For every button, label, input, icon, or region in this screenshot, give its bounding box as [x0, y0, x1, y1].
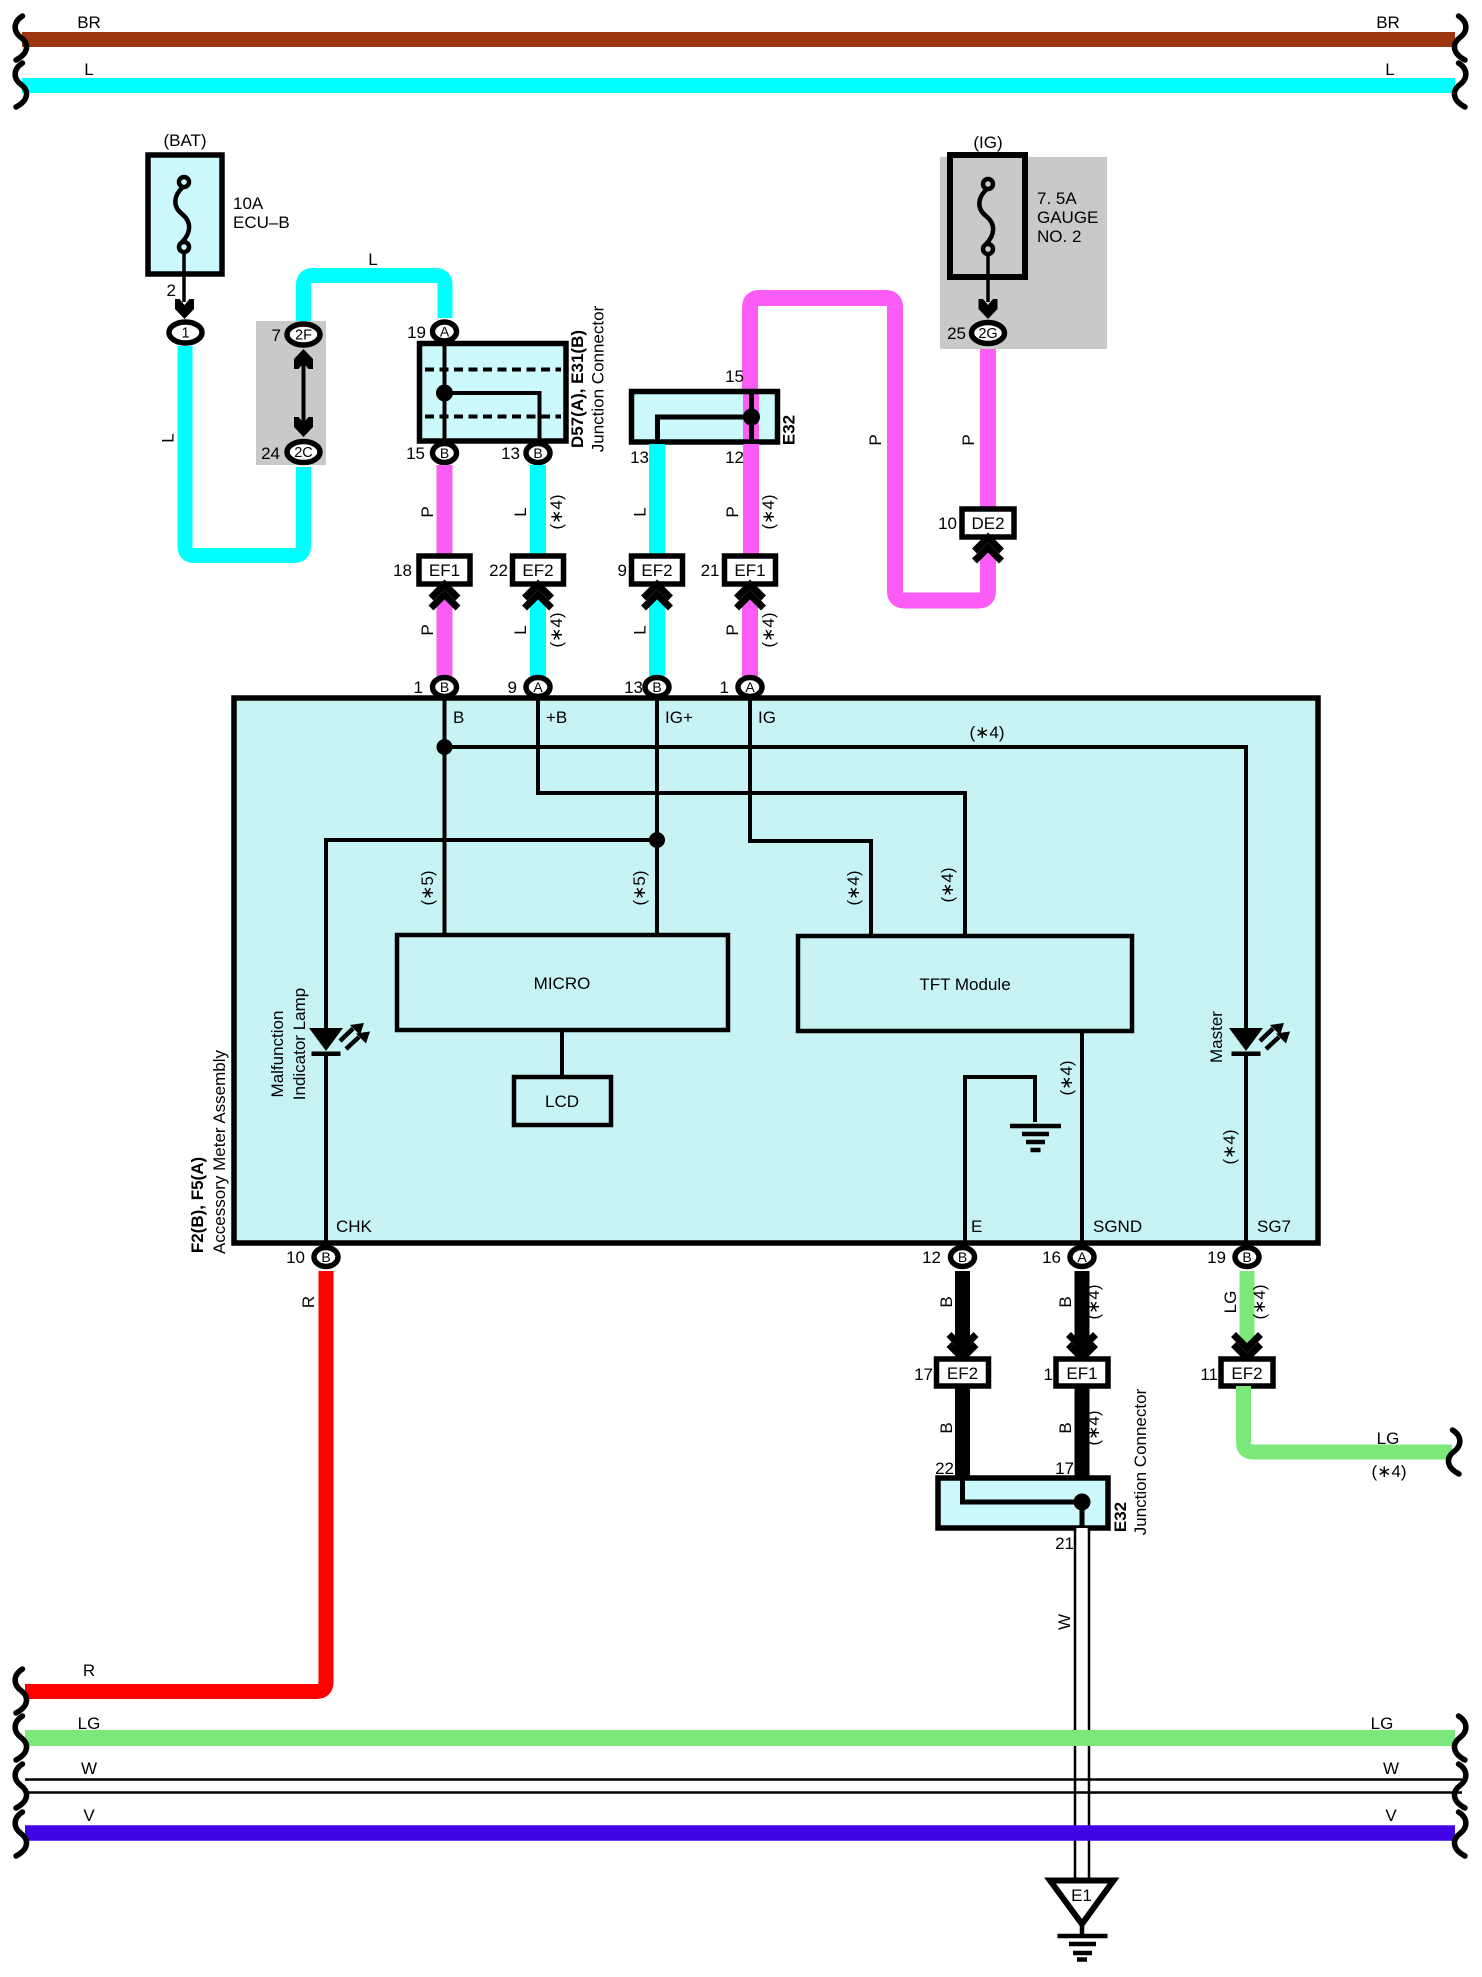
- svg-text:B: B: [453, 708, 464, 727]
- splice DE2 pin 10: [938, 509, 1014, 537]
- svg-text:(∗5): (∗5): [630, 870, 649, 905]
- svg-text:SGND: SGND: [1093, 1217, 1142, 1236]
- wire W from E32 pin 21 to ground E1 (white w/ black edges): [1055, 1528, 1088, 1878]
- svg-text:22: 22: [489, 561, 508, 580]
- svg-text:P: P: [866, 434, 885, 445]
- splice EF2 pin 22: [489, 556, 563, 584]
- wire LG(*4) from pin 19B to EF2 (green): [1221, 1271, 1269, 1355]
- terminal arrow into node 2G: [979, 299, 998, 319]
- wire L from E32 pin 13 to EF2 (cyan): [631, 444, 658, 556]
- meter pin 1 B: [414, 678, 457, 698]
- svg-text:(IG): (IG): [973, 133, 1002, 152]
- wire W vertical black edge lines: [1075, 1528, 1089, 1878]
- svg-text:12: 12: [922, 1248, 941, 1267]
- svg-text:B: B: [533, 445, 542, 461]
- continuation squiggle V left: [15, 1812, 26, 1856]
- Malfunction Indicator Lamp LED: [309, 1023, 370, 1056]
- meter pin 1 A (IG): [720, 678, 762, 698]
- internal wire from pin B to MICRO: [418, 700, 445, 935]
- svg-text:2F: 2F: [295, 328, 312, 344]
- svg-text:Accessory Meter Assembly: Accessory Meter Assembly: [210, 1049, 229, 1254]
- svg-text:IG+: IG+: [665, 708, 693, 727]
- internal wire from pin +B to TFT Module (*4): [538, 700, 965, 936]
- svg-text:V: V: [83, 1806, 95, 1825]
- svg-text:(∗4): (∗4): [1084, 1284, 1103, 1319]
- internal wire from pin IG+ to MICRO: [630, 700, 657, 935]
- svg-text:9: 9: [618, 561, 627, 580]
- svg-text:25: 25: [947, 324, 966, 343]
- svg-text:13: 13: [501, 444, 520, 463]
- svg-text:L: L: [511, 507, 530, 516]
- svg-text:E32: E32: [780, 415, 799, 445]
- svg-text:L: L: [511, 625, 530, 634]
- svg-text:L: L: [368, 250, 377, 269]
- svg-text:IG: IG: [758, 708, 776, 727]
- arrow chevrons into EF2: [949, 1335, 976, 1359]
- svg-text:13: 13: [624, 678, 643, 697]
- svg-text:(∗5): (∗5): [418, 870, 437, 905]
- wire P into E32 pin 15 (pink, from gauge fuse path): [980, 347, 996, 509]
- svg-text:EF2: EF2: [947, 1364, 978, 1383]
- continuation squiggle R left: [15, 1669, 26, 1713]
- svg-text:B: B: [321, 1249, 330, 1265]
- pin 15 B of D57: [406, 444, 456, 464]
- svg-text:L: L: [1385, 60, 1394, 79]
- svg-text:B: B: [958, 1249, 967, 1265]
- wire fuse ECU-B pin 2 to terminal 1: [167, 252, 184, 302]
- svg-text:LG: LG: [1371, 1714, 1394, 1733]
- svg-text:21: 21: [1055, 1534, 1074, 1553]
- fuse 7.5A GAUGE NO.2 (IG): [950, 133, 1098, 277]
- splice EF2 pin 9: [618, 556, 683, 584]
- meter assembly designator (rotated): [188, 1049, 229, 1254]
- svg-text:22: 22: [935, 1459, 954, 1478]
- svg-text:B: B: [937, 1422, 956, 1433]
- chevrons below DE2: [975, 538, 1002, 562]
- svg-text:10A: 10A: [233, 194, 264, 213]
- continuation squiggle BR left: [15, 16, 26, 60]
- pin 19 A of D57: [407, 322, 456, 342]
- fuse 10A ECU-B (BAT): [148, 131, 290, 274]
- svg-text:(∗4): (∗4): [759, 612, 778, 647]
- svg-text:L: L: [631, 507, 650, 516]
- continuation squiggle L right: [1454, 63, 1465, 107]
- svg-text:(∗4): (∗4): [759, 494, 778, 529]
- svg-text:E: E: [971, 1217, 982, 1236]
- svg-text:1: 1: [1044, 1365, 1053, 1384]
- svg-text:16: 16: [1042, 1248, 1061, 1267]
- svg-text:A: A: [533, 679, 543, 695]
- connector 2C pin 24: [261, 442, 320, 464]
- svg-text:17: 17: [1055, 1459, 1074, 1478]
- LCD block: [514, 1077, 611, 1125]
- svg-text:W: W: [1383, 1759, 1399, 1778]
- svg-text:E1: E1: [1071, 1886, 1092, 1905]
- ground E1 stem and bars: [1058, 1922, 1108, 1960]
- svg-text:BR: BR: [77, 13, 101, 32]
- svg-text:1: 1: [720, 678, 729, 697]
- svg-text:(∗4): (∗4): [844, 870, 863, 905]
- Malfunction Indicator Lamp label (rotated): [268, 988, 309, 1100]
- junction dot on IG+ line: [649, 832, 665, 848]
- MICRO block: [397, 935, 728, 1030]
- continuation squiggle LG right: [1454, 1716, 1465, 1760]
- splice EF1 pin 1: [1044, 1359, 1108, 1386]
- wire B from EF2 to E32 pin 22 (black): [935, 1386, 962, 1478]
- svg-text:MICRO: MICRO: [534, 974, 591, 993]
- continuation squiggle V right: [1454, 1812, 1465, 1856]
- svg-text:(∗4): (∗4): [938, 867, 957, 902]
- arrow chevrons into EF2 (SG7): [1234, 1335, 1261, 1359]
- junction connector D57(A), E31(B): [420, 343, 567, 441]
- wire B from pin 12B to EF2 (black): [937, 1271, 963, 1355]
- svg-text:(∗4): (∗4): [1371, 1462, 1406, 1481]
- svg-text:B: B: [937, 1296, 956, 1307]
- Accessory Meter Assembly F2(B),F5(A) box: [234, 698, 1318, 1243]
- svg-text:F2(B), F5(A): F2(B), F5(A): [188, 1157, 207, 1253]
- svg-text:L: L: [84, 60, 93, 79]
- wire Malfunction LED to pin CHK: [324, 1055, 328, 1243]
- internal wire from B junction to Master LED (*4): [445, 723, 1247, 1028]
- svg-text:L: L: [631, 625, 650, 634]
- svg-text:15: 15: [725, 367, 744, 386]
- svg-text:R: R: [299, 1296, 318, 1308]
- chevrons below EF2 (col3): [644, 585, 671, 609]
- splice EF2 pin 11: [1200, 1359, 1273, 1386]
- svg-text:L: L: [159, 433, 178, 442]
- wire W bus white core (bottom): [25, 1781, 1462, 1792]
- svg-text:7: 7: [272, 326, 281, 345]
- node 2G pin 25: [947, 323, 1004, 344]
- svg-text:EF2: EF2: [1231, 1364, 1262, 1383]
- junction connector E32 (bottom): [938, 1478, 1108, 1528]
- wire LG bus (green, bottom): [25, 1714, 1455, 1738]
- svg-text:P: P: [723, 506, 742, 517]
- meter pin 9 A: [508, 678, 550, 698]
- svg-text:P: P: [418, 624, 437, 635]
- svg-text:B: B: [1242, 1249, 1251, 1265]
- wire L bus (cyan, top): [22, 60, 1455, 86]
- wire L from EF2 chevrons to meter pin 13B (cyan): [631, 600, 658, 676]
- wire L(*4) from D57 pin 13B to EF2 (cyan): [511, 465, 566, 556]
- wire B(*4) from pin 16A to EF1 (black): [1056, 1271, 1103, 1355]
- svg-text:DE2: DE2: [971, 514, 1004, 533]
- wire V bus (violet, bottom): [25, 1806, 1455, 1833]
- svg-text:P: P: [418, 506, 437, 517]
- svg-text:EF1: EF1: [1066, 1364, 1097, 1383]
- wire B(*4) from EF1 to E32 pin 17 (black): [1055, 1386, 1103, 1478]
- svg-text:+B: +B: [546, 708, 567, 727]
- svg-text:24: 24: [261, 444, 280, 463]
- svg-text:EF1: EF1: [734, 561, 765, 580]
- svg-text:1: 1: [181, 326, 189, 342]
- svg-text:13: 13: [630, 448, 649, 467]
- pin 13 B of D57: [501, 444, 550, 464]
- svg-text:B: B: [440, 445, 449, 461]
- meter pin 13 B: [624, 678, 669, 698]
- svg-text:(∗4): (∗4): [1057, 1060, 1076, 1095]
- meter pin 16 A (SGND): [1042, 1248, 1094, 1268]
- node 1 (connector oval): [169, 322, 202, 343]
- svg-text:9: 9: [508, 678, 517, 697]
- svg-text:EF2: EF2: [641, 561, 672, 580]
- chevrons below EF1 (col4): [737, 585, 764, 609]
- wire P from D57 pin 15B to EF1 (pink): [418, 465, 445, 556]
- svg-text:(∗4): (∗4): [1220, 1129, 1239, 1164]
- svg-text:19: 19: [407, 323, 426, 342]
- internal signal ground symbol: [1010, 1126, 1061, 1150]
- svg-text:B: B: [652, 679, 661, 695]
- svg-text:EF1: EF1: [429, 561, 460, 580]
- svg-text:11: 11: [1200, 1365, 1218, 1384]
- connector 2F pin 7: [272, 324, 320, 345]
- continuation squiggle BR right: [1454, 16, 1465, 60]
- svg-text:Junction Connector: Junction Connector: [589, 305, 608, 452]
- E32 (bottom) label rotated: [1111, 1388, 1150, 1535]
- wire L from 2F to junction connector D57 pin 19A (cyan): [304, 250, 446, 321]
- splice EF1 pin 21: [701, 556, 776, 584]
- svg-text:A: A: [745, 679, 755, 695]
- svg-text:W: W: [81, 1759, 97, 1778]
- chevrons below EF2 (col2): [525, 585, 552, 609]
- internal wire TFT Module to pin SGND (*4): [1057, 1031, 1082, 1243]
- svg-text:BR: BR: [1376, 13, 1400, 32]
- wire fuse GAUGE pin to terminal 2G: [986, 252, 990, 302]
- svg-text:Junction Connector: Junction Connector: [1131, 1388, 1150, 1535]
- svg-text:LG: LG: [1377, 1429, 1400, 1448]
- svg-text:21: 21: [701, 561, 720, 580]
- wire L from terminal 1 to junction 2C (cyan): [159, 346, 304, 556]
- svg-text:10: 10: [286, 1248, 305, 1267]
- svg-text:P: P: [723, 624, 742, 635]
- svg-text:15: 15: [406, 444, 425, 463]
- svg-text:CHK: CHK: [336, 1217, 373, 1236]
- wire W bus (white w/ black edges, bottom): [25, 1759, 1462, 1793]
- svg-text:7. 5A: 7. 5A: [1037, 189, 1077, 208]
- wire LG(*4) from EF2 to right continuation (green): [1244, 1386, 1453, 1481]
- svg-text:E32: E32: [1111, 1502, 1130, 1532]
- svg-text:(∗4): (∗4): [1084, 1410, 1103, 1445]
- svg-text:LG: LG: [78, 1714, 101, 1733]
- wire BR bus (brown, top): [22, 13, 1455, 40]
- wire MICRO to LCD: [560, 1030, 564, 1077]
- D57 label (rotated): [568, 305, 608, 452]
- continuation squiggle LG left: [15, 1716, 26, 1760]
- chevrons below EF1: [431, 585, 458, 609]
- splice EF1 pin 18: [393, 556, 470, 584]
- svg-text:P: P: [959, 434, 978, 445]
- wire Master LED to pin SG7 (*4): [1220, 1055, 1246, 1243]
- svg-text:A: A: [440, 324, 450, 340]
- svg-text:1: 1: [414, 678, 423, 697]
- svg-text:A: A: [1077, 1249, 1087, 1265]
- gray block behind IG fuse: [940, 157, 1107, 349]
- internal wire pin E with ground branch: [965, 1077, 1035, 1243]
- svg-text:10: 10: [938, 514, 957, 533]
- svg-text:B: B: [1056, 1296, 1075, 1307]
- svg-text:ECU–B: ECU–B: [233, 213, 290, 232]
- svg-text:2: 2: [167, 281, 176, 300]
- svg-text:(∗4): (∗4): [969, 723, 1004, 742]
- svg-text:18: 18: [393, 561, 412, 580]
- svg-text:TFT Module: TFT Module: [919, 975, 1010, 994]
- meter pin 10 B (CHK): [286, 1248, 338, 1268]
- terminal arrow into node 1: [175, 299, 194, 319]
- svg-text:Master: Master: [1207, 1011, 1226, 1063]
- svg-text:V: V: [1385, 1806, 1397, 1825]
- continuation squiggle L left: [15, 63, 26, 107]
- svg-text:19: 19: [1207, 1248, 1226, 1267]
- svg-text:GAUGE: GAUGE: [1037, 208, 1098, 227]
- svg-text:Indicator Lamp: Indicator Lamp: [290, 988, 309, 1100]
- internal wire from IG+ junction to Malfunction Indicator Lamp: [326, 840, 657, 1028]
- meter pin 19 B (SG7): [1207, 1248, 1259, 1268]
- svg-text:B: B: [1056, 1422, 1075, 1433]
- gray block behind 2F/2C: [256, 321, 326, 465]
- Master LED: [1229, 1023, 1290, 1056]
- junction dot on B line: [437, 739, 453, 755]
- svg-text:B: B: [440, 679, 449, 695]
- svg-text:(∗4): (∗4): [547, 494, 566, 529]
- svg-text:LCD: LCD: [545, 1092, 579, 1111]
- internal wire from pin IG to TFT Module (*4): [750, 700, 871, 936]
- wire P from DE2 down, left and up to E32 pin 15 (pink): [750, 298, 988, 601]
- wire P(*4) from EF1 chevrons to meter pin 1A (pink): [723, 600, 778, 676]
- link arrow between 2F and 2C: [294, 349, 313, 437]
- svg-text:(∗4): (∗4): [1250, 1284, 1269, 1319]
- svg-text:D57(A), E31(B): D57(A), E31(B): [568, 330, 587, 448]
- svg-text:(∗4): (∗4): [547, 612, 566, 647]
- svg-text:NO. 2: NO. 2: [1037, 227, 1081, 246]
- wire L(*4) from EF2 chevrons to meter pin 9A (cyan): [511, 600, 566, 676]
- wire P from EF1 chevrons to meter pin 1B (pink): [418, 600, 445, 676]
- TFT Module block: [798, 936, 1132, 1031]
- svg-text:Malfunction: Malfunction: [268, 1011, 287, 1098]
- svg-text:12: 12: [725, 448, 744, 467]
- svg-text:R: R: [83, 1661, 95, 1680]
- continuation squiggle W left: [15, 1764, 26, 1808]
- svg-text:2G: 2G: [978, 326, 997, 342]
- continuation squiggle LG elbow right: [1448, 1430, 1459, 1474]
- svg-text:(BAT): (BAT): [163, 131, 206, 150]
- meter pin 12 B (E): [922, 1248, 974, 1268]
- svg-text:EF2: EF2: [522, 561, 553, 580]
- arrow chevrons into EF1: [1069, 1335, 1096, 1359]
- svg-text:W: W: [1055, 1614, 1074, 1630]
- ground E1 triangle: [1050, 1881, 1114, 1925]
- splice EF2 pin 17: [914, 1359, 988, 1386]
- svg-text:17: 17: [914, 1365, 933, 1384]
- svg-text:2C: 2C: [294, 445, 313, 461]
- svg-text:SG7: SG7: [1257, 1217, 1291, 1236]
- junction connector E32 (top): [632, 392, 778, 443]
- wire R from pin CHK down and left to bus (red): [25, 1271, 326, 1692]
- continuation squiggle W right: [1454, 1764, 1465, 1808]
- wire P(*4) from E32 pin 12 to EF1 (pink): [723, 444, 778, 556]
- svg-text:LG: LG: [1221, 1291, 1240, 1314]
